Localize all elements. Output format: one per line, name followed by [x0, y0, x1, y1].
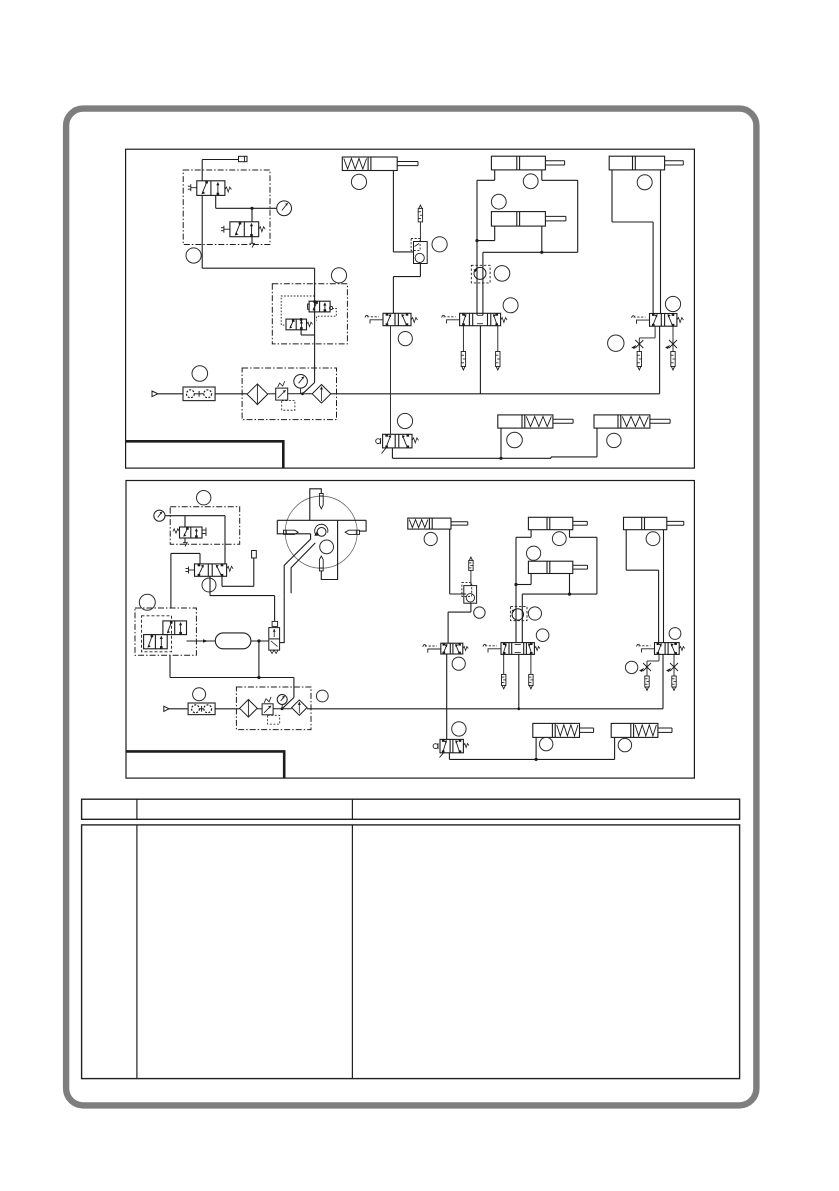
balloon label 3 [192, 366, 208, 382]
table body row [82, 825, 740, 1079]
wire C5 port [500, 428, 502, 458]
valve D2-C 5/2 [655, 643, 680, 655]
balloon label 27 [527, 546, 541, 560]
cylinder C1 single-acting spring return [342, 157, 397, 171]
wire V10 to valve V13 feed [209, 576, 211, 595]
bleed plug P1 [202, 159, 238, 161]
wires C4 ports down to V8 [611, 170, 613, 222]
shut-off coupling [183, 387, 215, 401]
filter F [247, 384, 268, 405]
pilot dotted loop right [317, 309, 337, 321]
wire DB2 down to main line [314, 268, 316, 382]
silencers under D2-B [503, 654, 505, 674]
balloon label 22 [316, 690, 328, 702]
gray rounded page border [66, 109, 756, 1106]
valve G 3/2 roller [440, 739, 463, 752]
wire CV3 to valve D2-A [470, 603, 472, 612]
flow control + silencer left under V8 [654, 326, 656, 338]
wire manifold down to V10 [224, 516, 226, 564]
regulator R [276, 388, 288, 400]
check valve CV4 [511, 606, 527, 620]
line coupling to FRL [215, 393, 247, 395]
geneva top slot [319, 494, 323, 497]
cylinder D2-3 double-acting [528, 561, 572, 573]
main air line before coupling [158, 393, 184, 395]
geneva index table circle (dashed) [285, 496, 357, 568]
main air line 2 after FRL2 [307, 708, 663, 710]
wire V1 top [201, 160, 203, 181]
balloon label 29 [536, 629, 549, 642]
regulator R [262, 704, 273, 715]
valve V1 3/2 manual [197, 181, 225, 196]
cylinder C2 double-acting [491, 156, 545, 170]
flow controls + silencers under D2-C [658, 654, 660, 661]
geneva right slot [356, 530, 359, 534]
cylinder D2-4 double-acting [624, 517, 667, 529]
wires C2/C3 left ports [494, 170, 496, 180]
wires D2-2/3 right ports loop [569, 530, 571, 538]
wire V13 side to geneva crank [280, 642, 285, 644]
wire V5 down crossing main line to V7 [390, 326, 392, 435]
cylinder D2-1 spring return [408, 518, 451, 529]
inner dashed enclosure DB4b [142, 616, 172, 652]
cylinder C5 spring return [498, 415, 553, 428]
FRL unit enclosure (dash-dot) [236, 687, 311, 730]
balloon label 18 [320, 540, 334, 554]
pressure gauge on FRL [277, 695, 287, 705]
valve V9 3/2 [180, 527, 203, 538]
balloon label 15 [507, 432, 523, 448]
wires D2-4 ports down [625, 530, 627, 571]
balloon label 7 [397, 413, 412, 428]
logic enclosure DB4 (dash-dot) [135, 608, 196, 655]
cylinder D2-5 spring return [533, 723, 580, 737]
balloon label 2 [331, 268, 346, 283]
table header row [82, 799, 740, 819]
pressure gauge G1 [277, 201, 292, 216]
pressure control CV1 (rect+dashed+circle) [414, 242, 428, 264]
wires D2-2/3 left ports [530, 530, 532, 538]
balloon label 34 [540, 737, 553, 750]
balloon label 31 [669, 628, 681, 640]
cylinder D2-6 spring return [611, 723, 658, 737]
wire gauge to manifold [165, 515, 225, 517]
balloon label 9 [491, 194, 506, 209]
balloon label 11 [503, 298, 518, 313]
lubricator L [312, 385, 331, 404]
wire junction to V2 [251, 208, 253, 222]
geneva left slot [284, 530, 287, 534]
exhaust under V9 [184, 538, 186, 543]
wire DB4 to accumulator [187, 640, 216, 642]
V6 supply wire to main line [479, 326, 481, 394]
signal wire from V1 down to DB2 [201, 195, 203, 268]
main air line 2 before coupling [169, 708, 189, 710]
wire manifold to V9 [184, 516, 186, 527]
pressure control CV3 [464, 586, 477, 604]
valve V7 3/2 roller [383, 434, 412, 448]
balloon label 5 [398, 332, 412, 346]
plug P2 [252, 551, 257, 559]
cylinder C4 double-acting [609, 156, 664, 170]
valve V5 5/2 [383, 313, 411, 325]
wire valve G output along bottom [448, 753, 450, 760]
accumulator (surge tank) [215, 633, 251, 649]
wire D2-B supply to main line 2 [518, 654, 520, 708]
geneva center pivot + rotate arrow [317, 528, 326, 537]
pilot dotted loop left [281, 296, 314, 325]
wire accumulator branch down [258, 641, 260, 678]
filter F [240, 700, 258, 718]
valve D2-B 5/3 [501, 643, 534, 655]
silencer above CV1 [419, 205, 422, 208]
geneva bottom arm [321, 520, 337, 579]
diagram 1 title block [126, 441, 284, 468]
wire C6 port [596, 428, 598, 457]
balloon label 19 [202, 578, 216, 592]
balloon label 12 [637, 175, 652, 190]
valve V11 small [163, 621, 187, 635]
lubricator L [292, 700, 307, 715]
wire D2-6 port [614, 737, 616, 759]
valve V13 2/2 vertical [272, 621, 278, 626]
balloon label 17 [197, 491, 211, 505]
pressure gauge G3 [154, 510, 165, 521]
balloon label 14 [608, 335, 624, 351]
geneva crank band [284, 534, 310, 596]
wire D2-5 port [535, 737, 537, 759]
wire D2-A down to valve G [446, 654, 448, 739]
FRL unit enclosure (dash-dot) [242, 368, 336, 420]
main air line after FRL [331, 393, 660, 395]
valve V4 3/2 small [286, 319, 307, 330]
flow control + silencer right under V8 [672, 326, 674, 338]
wire D2-C supply to main line 2 [662, 654, 664, 708]
balloon label 25 [452, 657, 465, 670]
balloon label 1 [186, 248, 201, 263]
balloon label 23 [424, 532, 437, 545]
valve D2-A 5/2 [441, 643, 463, 654]
valve V10 5/2 [195, 564, 227, 576]
exhaust under valve G [440, 753, 444, 758]
geneva bottom slot [319, 568, 323, 571]
wire C1 port down [392, 171, 394, 252]
wire V7 output to bottom cylinders [391, 448, 393, 458]
check valve CV2 (dashed box + circle) [471, 265, 490, 283]
valve V12 small [144, 635, 168, 649]
pressure gauge on FRL [294, 375, 308, 389]
balloon label 8 [523, 174, 538, 189]
diagram 2 title block [126, 751, 284, 778]
balloon label 30 [646, 532, 660, 546]
V8 supply wire to main line [659, 326, 661, 394]
silencer above CV3 [469, 557, 472, 560]
FRL internal line [257, 708, 262, 710]
valve V2 3/2 [230, 222, 259, 237]
exhaust under V7 [382, 448, 387, 454]
FRL internal line [268, 393, 276, 395]
logic group enclosure DB2 (dash-dot) [272, 284, 347, 344]
diagram 1 border [126, 149, 695, 468]
balloon label 4 [351, 174, 366, 189]
wire accumulator to V13 [251, 640, 269, 642]
valve V3 3/2 small [309, 301, 330, 312]
wires C2/C3 right ports loop [541, 170, 543, 180]
wire V1 to gauge G1 [215, 195, 217, 208]
control group enclosure (dash-dot) DB1 [183, 170, 270, 245]
wire left manifold [171, 552, 200, 554]
geneva horizontal band [277, 519, 366, 521]
shut-off coupling 2 [188, 703, 215, 715]
balloon label 26 [552, 532, 566, 546]
geneva top arm [310, 489, 322, 521]
wire V4 output [300, 330, 302, 335]
wire V10 to plug P2 [221, 576, 223, 586]
valve V8 5/2 [650, 314, 677, 327]
air supply source triangle 2 [164, 706, 169, 711]
line coupling2 to FRL2 [215, 708, 240, 710]
diagram 2 border [126, 481, 694, 779]
balloon label 13 [665, 296, 680, 311]
exhaust triangle under V2 [251, 237, 253, 243]
cylinder C3 double-acting [491, 212, 545, 227]
air supply source triangle [152, 391, 158, 397]
balloon label 28 [528, 607, 541, 620]
wire D2-1 port down [449, 529, 451, 594]
cylinder D2-2 double-acting [528, 517, 572, 529]
wire CV1 down to valve V5 [419, 264, 421, 277]
wire DB4 down [169, 655, 171, 677]
balloon label 10 [494, 266, 510, 282]
balloon label 16 [607, 433, 621, 447]
valve V6 5/3 [460, 313, 501, 325]
balloon label 21 [193, 688, 206, 701]
balloon label 6 [432, 237, 447, 252]
control enclosure DB3 (dash-dot) [170, 507, 240, 544]
balloon label 35 [618, 738, 631, 751]
exhaust silencers under V6 [462, 326, 464, 352]
balloon label 20 [139, 594, 155, 610]
pilot return manifold wire [170, 677, 294, 679]
cylinder C6 spring return [594, 415, 650, 428]
balloon label 33 [452, 722, 466, 736]
balloon label 24 [474, 607, 485, 618]
balloon label 32 [625, 661, 637, 673]
